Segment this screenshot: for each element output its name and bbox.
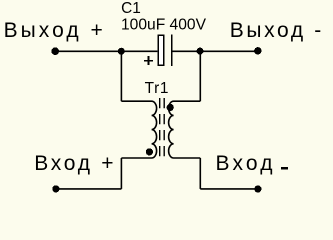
wire top-left rail: [56, 50, 158, 52]
wire bottom-left rail: [56, 188, 122, 190]
terminal Выход -: [254, 47, 261, 54]
svg-text:Tr1: Tr1: [145, 80, 169, 97]
transformer core dashed line right: [163, 98, 165, 157]
junction node right: [197, 48, 204, 55]
wire left vertical bottom: [120, 158, 122, 189]
polarity dot secondary top: [167, 104, 174, 111]
wire left vertical (junction to Tr1): [120, 51, 122, 101]
wire right vertical bottom: [199, 158, 201, 189]
terminal Выход +: [51, 47, 59, 55]
capacitor C1 box plate: [158, 35, 164, 65]
transformer Tr1 secondary winding (right): [169, 101, 201, 158]
svg-text:C1: C1: [121, 0, 141, 17]
wire bottom-right rail: [200, 188, 258, 190]
transformer Tr1 primary winding (left): [121, 101, 156, 158]
transformer core dashed line left: [159, 98, 161, 157]
svg-text:Вход +: Вход +: [34, 152, 113, 175]
polarity dot primary bottom: [146, 148, 153, 155]
terminal Вход -: [254, 185, 261, 192]
capacitor C1 line plate: [171, 35, 173, 66]
capacitor C1 plus polarity mark: [144, 56, 153, 65]
junction node left: [118, 48, 125, 55]
svg-text:100uF 400V: 100uF 400V: [121, 16, 207, 33]
terminal Вход +: [52, 185, 59, 192]
label Вход - (dash): [281, 167, 288, 169]
wire right vertical (junction to Tr1): [199, 51, 201, 101]
wire top-right rail: [172, 50, 259, 52]
